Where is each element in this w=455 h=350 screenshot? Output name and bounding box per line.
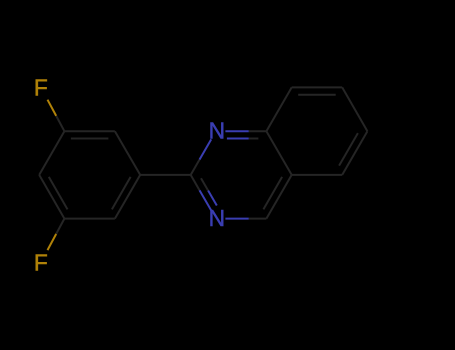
left phenyl ring bond C3-C4 (upper-left edge) [39,131,64,175]
bond C3-F (top fluorine) (halves) [48,100,57,116]
svg-text:N: N [209,205,225,231]
pyrimidine inner double line C4=C4a [263,177,282,210]
pyrimidine inner double line N1=C8a [227,138,249,140]
left phenyl ring double bond C2-C3 (top edge) [64,130,115,132]
left phenyl ring bond C5-C6 (bottom edge) [64,218,115,220]
benzo ring double bond C6=C5 (lower-right edge) [342,131,367,175]
left phenyl inner double line C6-C1 [112,177,131,210]
left phenyl ring double bond C6-C1 (lower-right edge) [115,175,140,219]
svg-text:F: F [34,249,48,275]
benzo ring bond C7-C6 (upper-right edge) [342,87,367,131]
pyrimidine bond N1-C2 [200,139,212,159]
pyrimidine inner double line C2=N3 [208,191,217,206]
left phenyl ring bond C1-C2 (upper-right edge) [115,131,140,175]
left phenyl inner double line C2-C3 [71,138,109,140]
svg-text:F: F [34,74,48,100]
left phenyl ring double bond C4-C5 (lower-left edge) [39,175,64,219]
pyrimidine bond N3-C4 [225,218,248,220]
pyrimidine double bond N1=C8a main line [225,130,248,132]
pyrimidine double bond C2=N3 main line [200,190,212,210]
benzo inner double line C8=C7 [298,94,336,96]
benzo inner double line C6=C5 [339,133,358,166]
benzo ring bond C8a-C8 (upper-left edge) [266,87,291,131]
pyrimidine double bond C4=C4a main line [266,175,291,219]
bond C5-F (bottom fluorine) (halves) [48,234,57,250]
bond C1-C2' linking phenyl to pyrimidine [140,174,191,176]
left phenyl inner double line C4-C5 [49,177,68,210]
quinazoline fusion bond C8a-C4a [266,131,291,175]
svg-text:N: N [209,118,225,144]
benzo ring double bond C8=C7 (top edge) [292,86,343,88]
benzo ring bond C5-C4a (bottom edge) [292,174,343,176]
